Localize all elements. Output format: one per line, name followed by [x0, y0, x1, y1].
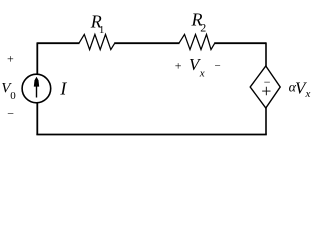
svg-text:2: 2	[200, 21, 206, 35]
svg-text:I: I	[59, 78, 67, 98]
svg-text:x: x	[305, 88, 311, 100]
svg-text:−: −	[215, 60, 221, 72]
svg-text:1: 1	[99, 24, 105, 36]
svg-text:x: x	[199, 67, 205, 79]
svg-text:+: +	[261, 81, 271, 101]
svg-text:+: +	[7, 52, 14, 66]
svg-text:−: −	[7, 106, 14, 120]
svg-text:+: +	[175, 59, 182, 73]
svg-text:0: 0	[10, 90, 16, 102]
